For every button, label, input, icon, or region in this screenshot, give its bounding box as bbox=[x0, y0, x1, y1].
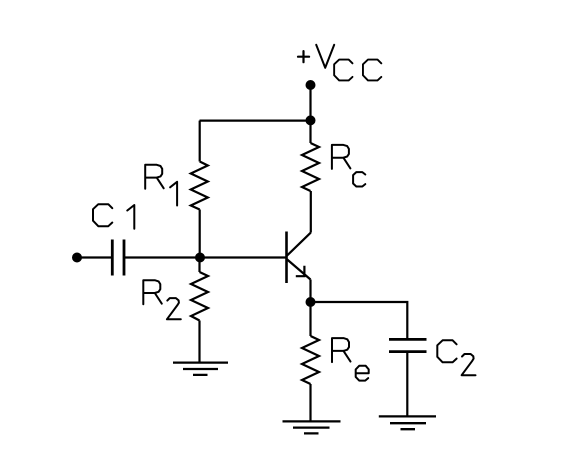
wire emitter to C2 bbox=[311, 302, 408, 339]
wire R2 bottom lead bbox=[198, 321, 200, 363]
wire collector lead bbox=[310, 191, 312, 233]
label Rc bbox=[332, 145, 365, 187]
wire C1 to base node bbox=[124, 256, 287, 258]
ground R2 bbox=[173, 363, 228, 375]
node input terminal dot bbox=[72, 253, 82, 263]
resistor R2 bbox=[191, 272, 208, 321]
label +VCC bbox=[298, 45, 381, 81]
wire R1 bottom lead bbox=[199, 210, 201, 258]
wire C2 bottom lead bbox=[406, 352, 408, 417]
wire Re bottom lead bbox=[309, 384, 311, 421]
capacitor C1 bbox=[112, 240, 124, 276]
node base junction bbox=[195, 253, 205, 263]
wire emitter lead bbox=[309, 280, 311, 303]
power +VCC terminal dot bbox=[306, 80, 316, 90]
transistor Q1 emitter diagonal with arrow bbox=[287, 259, 311, 280]
wire R2 top lead bbox=[198, 258, 200, 273]
ground Re bbox=[283, 421, 341, 433]
label Re bbox=[332, 338, 369, 380]
ground C2 bbox=[379, 416, 436, 429]
transistor Q1 base bar bbox=[285, 232, 288, 284]
wire top rail to R1 bbox=[200, 119, 311, 121]
wire Rc top lead bbox=[309, 121, 311, 143]
label R2 bbox=[143, 280, 181, 319]
wire R1 top lead bbox=[199, 121, 201, 162]
label C1 bbox=[93, 204, 134, 229]
node emitter junction bbox=[306, 297, 316, 307]
resistor R1 bbox=[191, 162, 208, 210]
wire input to C1 bbox=[77, 256, 113, 258]
label R1 bbox=[145, 165, 177, 206]
label C2 bbox=[437, 340, 475, 375]
wire VCC stub bbox=[309, 85, 311, 121]
node VCC rail junction bbox=[306, 115, 316, 125]
capacitor C2 bbox=[389, 339, 427, 351]
transistor Q1 collector diagonal bbox=[287, 233, 311, 256]
resistor Rc bbox=[302, 143, 319, 191]
wire emitter node to Re bbox=[309, 302, 311, 336]
resistor Re bbox=[302, 336, 319, 384]
